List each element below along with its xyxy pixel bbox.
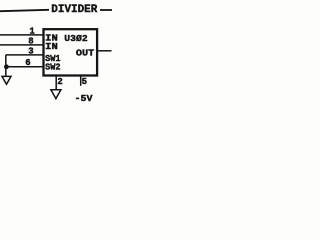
wire pin 3 [6, 54, 44, 56]
svg-text:IN: IN [45, 42, 58, 52]
svg-text:OUT: OUT [76, 47, 95, 58]
svg-text:3: 3 [28, 47, 33, 57]
wire pin 2 stub [55, 76, 57, 90]
wire pin 6 [6, 66, 44, 68]
svg-text:8: 8 [28, 37, 33, 47]
wire pin 5 stub [80, 76, 82, 86]
wire dashed block-boundary right segment [100, 9, 112, 11]
svg-text:6: 6 [25, 58, 30, 68]
svg-text:U3Ø2: U3Ø2 [64, 33, 88, 44]
wire pin 1 [0, 34, 44, 36]
node junction dot [4, 64, 9, 69]
ground left [2, 76, 11, 84]
svg-text:DIVIDER: DIVIDER [51, 4, 97, 16]
wire OUT pin [97, 50, 112, 52]
svg-text:1: 1 [29, 27, 35, 37]
ground pin 2 [51, 90, 61, 99]
wire pin 8 [0, 44, 44, 46]
wire ground riser [5, 55, 7, 76]
svg-text:-5V: -5V [75, 93, 93, 104]
svg-text:2: 2 [57, 77, 62, 87]
svg-text:SW2: SW2 [45, 62, 61, 72]
wire dashed block-boundary left segment [0, 10, 49, 11]
svg-text:5: 5 [82, 77, 87, 87]
op-amp U302 divider box outline [44, 29, 98, 75]
